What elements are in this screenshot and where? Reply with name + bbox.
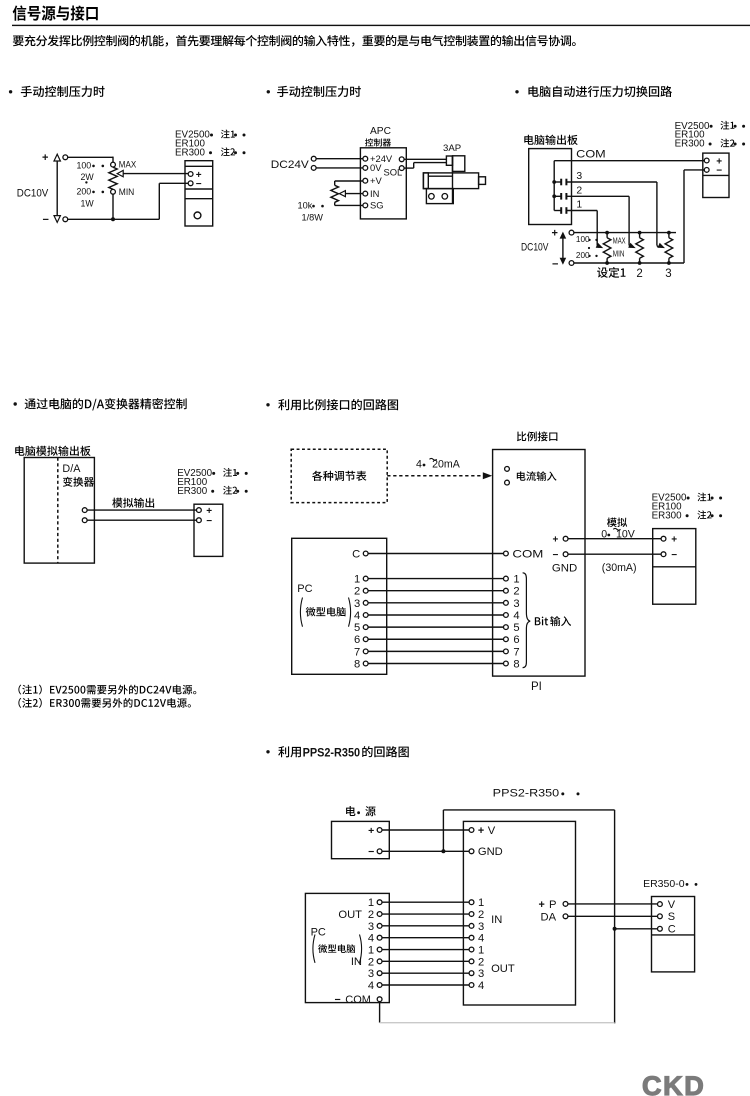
- svg-text:1: 1: [478, 897, 484, 909]
- valve 3AP left flange: [423, 173, 428, 189]
- svg-text:SG: SG: [370, 200, 384, 211]
- svg-text:+: +: [42, 152, 48, 164]
- wire row1: [382, 901, 469, 903]
- wire junction up to top rail: [442, 810, 444, 851]
- svg-text:ER300: ER300: [652, 510, 683, 521]
- svg-text:4: 4: [513, 610, 519, 622]
- wire 1 PC to PI: [368, 578, 503, 580]
- mounting hole left: [429, 194, 435, 200]
- svg-text:5: 5: [513, 622, 519, 634]
- top rail to right side: [443, 809, 614, 811]
- PI terminal 3: [504, 600, 509, 605]
- wire row5: [382, 949, 469, 951]
- svg-text:D/A: D/A: [62, 463, 81, 475]
- solenoid 3AP coil body: [453, 156, 465, 172]
- svg-text:200: 200: [576, 251, 590, 260]
- COM wire down and right (gray rail): [379, 1002, 381, 1023]
- wire row3: [382, 925, 469, 927]
- bottom wire from - terminal: [68, 218, 160, 220]
- svg-text:C: C: [352, 548, 360, 560]
- PI terminal 5: [504, 625, 509, 630]
- svg-text:4: 4: [416, 459, 422, 471]
- svg-text:COM: COM: [345, 994, 371, 1006]
- label 微型电脑: [306, 607, 346, 617]
- svg-text:V: V: [488, 825, 496, 837]
- PC box (circuit6): [305, 893, 389, 1002]
- wire C PC to PI: [368, 553, 503, 555]
- svg-text:1W: 1W: [81, 198, 95, 208]
- label 电脑模拟输出板: [15, 446, 90, 456]
- wire 3 PC to PI: [368, 602, 503, 604]
- junction dot on GND wire: [441, 849, 445, 853]
- pin +V: [363, 178, 368, 183]
- svg-text:ER300: ER300: [675, 139, 706, 150]
- svg-text:7: 7: [354, 646, 360, 658]
- voltage source arrow line: [56, 160, 58, 217]
- svg-text:+V: +V: [370, 175, 382, 186]
- valve terminal - (c4): [197, 518, 202, 523]
- label 设定1: [597, 267, 625, 278]
- valve terminal + (c3): [704, 158, 709, 163]
- svg-text:MAX: MAX: [613, 236, 626, 246]
- svg-text:3: 3: [478, 921, 484, 933]
- svg-text:V: V: [668, 899, 676, 911]
- arrow onto pot1: [596, 243, 605, 251]
- wiper arrow of R1: [123, 173, 189, 175]
- dashed arrow 4-20mA: [387, 475, 485, 477]
- svg-text:OUT: OUT: [338, 909, 362, 921]
- solenoid 3AP connector: [446, 156, 452, 165]
- terminal S: [658, 914, 663, 919]
- svg-text:+: +: [552, 535, 558, 546]
- output contact 2: [554, 195, 561, 197]
- svg-text:MAX: MAX: [119, 160, 137, 171]
- COM bus vertical: [553, 161, 555, 211]
- label 变换器: [63, 477, 94, 487]
- valve terminal +: [188, 172, 193, 177]
- svg-text:3: 3: [576, 171, 582, 182]
- COM terminal: [377, 997, 382, 1002]
- svg-text:IN: IN: [370, 188, 379, 199]
- valve 3AP mounting plate: [426, 189, 453, 204]
- wire P to V: [568, 903, 658, 905]
- wire DC24V- to 0V pin: [316, 167, 363, 169]
- svg-text:4: 4: [368, 933, 374, 945]
- svg-text:8: 8: [513, 658, 519, 670]
- wire output2 to pot2: [566, 195, 629, 197]
- current input terminal 1: [505, 467, 510, 472]
- output contact 3: [554, 181, 561, 183]
- junction dot row2: [552, 194, 556, 198]
- svg-text:OUT: OUT: [491, 963, 515, 975]
- wiper arrow of 10k pot: [345, 193, 363, 195]
- PI terminal C: [504, 551, 509, 556]
- DC24V terminal bottom: [311, 166, 316, 171]
- valve unit body (circuit5): [653, 529, 696, 605]
- svg-text:(30mA): (30mA): [602, 562, 637, 574]
- PPS2 terminal 2 row2: [469, 912, 474, 917]
- bullet heading 利用PPS2-R350的回路图: [266, 750, 269, 753]
- wire power- to GND: [382, 850, 469, 852]
- svg-text:DA: DA: [541, 911, 557, 923]
- PPS2-R350 box U2: [463, 821, 575, 1005]
- wire DC24V+ to +24V pin: [316, 158, 363, 160]
- label 模拟: [607, 518, 627, 528]
- svg-text:2: 2: [354, 586, 360, 598]
- PI interface box: [493, 450, 585, 677]
- junction dot row3: [552, 180, 556, 184]
- svg-text:DC10V: DC10V: [521, 241, 549, 253]
- note 1: [18, 685, 196, 695]
- wire row8: [382, 984, 469, 986]
- svg-text:2W: 2W: [81, 172, 95, 182]
- svg-text:P: P: [549, 899, 556, 911]
- label 电脑输出板: [524, 135, 577, 145]
- svg-text:2: 2: [513, 586, 519, 598]
- valve 3AP main body: [423, 173, 478, 189]
- preset pot 1: [603, 238, 611, 258]
- wire top from + terminal to potentiometer: [68, 156, 113, 158]
- wire row4: [382, 937, 469, 939]
- svg-text:2: 2: [368, 909, 374, 921]
- svg-text:DC10V: DC10V: [17, 187, 49, 199]
- svg-text:4: 4: [478, 933, 484, 945]
- svg-text:1: 1: [513, 574, 519, 586]
- PI terminal 2: [504, 588, 509, 593]
- svg-text:4: 4: [478, 980, 484, 992]
- potentiometer 10k body: [334, 181, 336, 185]
- brace Bit input: [523, 573, 531, 668]
- svg-text:1: 1: [576, 200, 582, 211]
- wire SOL top to solenoid: [404, 158, 446, 160]
- bullet heading 手动控制压力时 (middle): [267, 90, 270, 93]
- voltage source up arrowhead: [54, 154, 60, 161]
- svg-text:4: 4: [354, 610, 360, 622]
- pin 0V: [363, 166, 368, 171]
- potentiometer R1 MIN terminal: [111, 189, 116, 194]
- parenthesis right: [349, 598, 351, 627]
- svg-text:3: 3: [368, 968, 374, 980]
- wire + to valve (c5): [568, 538, 661, 540]
- svg-text:COM: COM: [512, 548, 543, 560]
- svg-text:PPS2-R350: PPS2-R350: [303, 745, 361, 759]
- svg-text:MIN: MIN: [613, 249, 625, 259]
- PPS2 terminal 4 row4: [469, 935, 474, 940]
- SOL pin top: [399, 157, 404, 162]
- svg-text:100: 100: [77, 161, 92, 171]
- svg-text:−: −: [716, 166, 722, 177]
- svg-text:3: 3: [665, 268, 671, 280]
- valve terminal - (c5): [661, 552, 666, 557]
- DC24V terminal top: [311, 156, 316, 161]
- preset pot 2: [636, 238, 644, 258]
- svg-text:IN: IN: [351, 956, 362, 968]
- wire SOL bottom to solenoid: [404, 167, 414, 169]
- svg-text:ER300: ER300: [175, 147, 206, 158]
- note 2: [18, 698, 191, 708]
- svg-text:ER350-0: ER350-0: [643, 878, 685, 890]
- svg-text:3: 3: [513, 598, 519, 610]
- PI terminal 4: [504, 613, 509, 618]
- potentiometer R1 MAX terminal: [111, 162, 116, 167]
- label Bit输入: [535, 617, 548, 626]
- dashed divider: [57, 458, 59, 564]
- mounting hole right: [442, 194, 448, 200]
- svg-text:10k: 10k: [298, 201, 313, 211]
- intro paragraph: [13, 35, 576, 47]
- pin +24V: [363, 156, 368, 161]
- power supply box: [332, 821, 390, 858]
- wire row2: [382, 913, 469, 915]
- terminal - of DC10V: [63, 217, 68, 222]
- svg-text:PC: PC: [297, 583, 312, 595]
- wire analog + to valve: [87, 509, 197, 511]
- label 比例接口: [517, 431, 557, 441]
- PI terminal 7: [504, 649, 509, 654]
- COM wire to valve +: [554, 160, 704, 162]
- wire 7 PC to PI: [368, 650, 503, 652]
- valve terminal -: [188, 181, 193, 186]
- PI terminal 6: [504, 637, 509, 642]
- top rail: [574, 232, 676, 234]
- junction dot bottom of R1: [111, 217, 115, 221]
- svg-text:COM: COM: [576, 149, 606, 161]
- terminal V: [658, 902, 663, 907]
- source terminal -: [569, 261, 574, 266]
- svg-text:ER300: ER300: [177, 486, 208, 497]
- PPS2 terminal 1 row5: [469, 947, 474, 952]
- PI terminal 8: [504, 661, 509, 666]
- bullet heading 手动控制压力时 (left): [9, 90, 12, 93]
- svg-text:C: C: [668, 924, 676, 936]
- terminal + of DC10V: [63, 155, 68, 160]
- junction dot to C wire: [613, 927, 617, 931]
- arrow onto pot2: [628, 243, 637, 251]
- wire rail to C terminal: [615, 928, 658, 930]
- svg-text:IN: IN: [491, 914, 502, 926]
- label 控制器: [365, 138, 391, 146]
- wire output3 to pot3: [566, 181, 657, 183]
- PPS2 terminal 3 row7: [469, 971, 474, 976]
- svg-text:8: 8: [354, 658, 360, 670]
- svg-text:1: 1: [478, 944, 484, 956]
- wire power+ to +V: [382, 829, 469, 831]
- svg-text:2: 2: [478, 909, 484, 921]
- svg-text:3AP: 3AP: [443, 143, 461, 154]
- wire DA to S: [568, 915, 658, 917]
- svg-text:4: 4: [368, 980, 374, 992]
- svg-text:−: −: [552, 550, 558, 561]
- analog output board box: [24, 458, 94, 564]
- wire analog - to valve: [87, 519, 197, 521]
- APC controller box U1: [360, 148, 406, 219]
- title 信号源与接口: [13, 5, 98, 20]
- svg-text:200: 200: [77, 187, 92, 197]
- valve unit body: [185, 161, 213, 226]
- terminal analog -: [82, 518, 87, 523]
- wire 6 PC to PI: [368, 638, 503, 640]
- svg-text:20mA: 20mA: [432, 459, 461, 471]
- label 各种调节表: [312, 471, 366, 481]
- source terminal +: [569, 230, 574, 235]
- wire valve minus to bottom rail: [159, 182, 188, 184]
- svg-text:3: 3: [354, 598, 360, 610]
- svg-text:2: 2: [478, 956, 484, 968]
- svg-text:2: 2: [368, 956, 374, 968]
- preset pot 3: [665, 238, 673, 258]
- title underline: [12, 25, 750, 26]
- svg-text:3: 3: [368, 921, 374, 933]
- svg-text:CKD: CKD: [642, 1071, 705, 1096]
- PC box (circuit5): [292, 538, 387, 674]
- svg-text:MIN: MIN: [119, 187, 135, 198]
- valve terminal - (c3): [704, 168, 709, 173]
- svg-text:−: −: [552, 259, 558, 271]
- wire 2 PC to PI: [368, 590, 503, 592]
- valve terminal + (c4): [197, 508, 202, 513]
- wire 4 PC to PI: [368, 614, 503, 616]
- svg-text:PC: PC: [311, 927, 326, 939]
- PPS2 terminal 1 row1: [469, 900, 474, 905]
- label 电流输入: [517, 471, 557, 481]
- svg-text:0V: 0V: [370, 162, 382, 173]
- svg-text:+: +: [368, 825, 374, 837]
- svg-text:5: 5: [354, 622, 360, 634]
- voltage source down arrowhead: [54, 216, 60, 223]
- parenthesis left: [300, 598, 302, 627]
- wire row7: [382, 972, 469, 974]
- svg-text:3: 3: [478, 968, 484, 980]
- valve unit body (circuit4): [194, 504, 223, 556]
- svg-text:2: 2: [636, 268, 642, 280]
- svg-text:GND: GND: [478, 846, 503, 858]
- arrow onto pot3: [658, 243, 667, 251]
- potentiometer R1 zigzag body: [109, 167, 117, 189]
- valve indicator circle: [194, 212, 201, 219]
- PI terminal 1: [504, 576, 509, 581]
- svg-text:7: 7: [513, 646, 519, 658]
- svg-text:2: 2: [576, 186, 582, 197]
- PPS2 terminal 3 row3: [469, 923, 474, 928]
- ER350 valve box: [652, 897, 695, 972]
- svg-text:100: 100: [576, 235, 590, 244]
- parenthesis left (c6): [313, 935, 315, 963]
- svg-text:1: 1: [368, 897, 374, 909]
- wire 8 PC to PI: [368, 663, 503, 665]
- bullet heading 电脑自动进行压力切换回路 (right): [515, 90, 518, 93]
- PPS2 terminal 4 row8: [469, 983, 474, 988]
- svg-text:−: −: [368, 846, 374, 858]
- svg-text:S: S: [668, 911, 675, 923]
- wire 5 PC to PI: [368, 626, 503, 628]
- right vertical rail: [614, 810, 616, 1024]
- svg-text:APC: APC: [370, 126, 391, 137]
- valve 3AP right port: [479, 177, 486, 185]
- solenoid vertical edge line: [452, 156, 454, 204]
- pin SG: [363, 203, 368, 208]
- bottom rail: [574, 262, 684, 264]
- valve unit body (circuit3): [703, 153, 729, 197]
- output contact 1: [554, 210, 561, 212]
- svg-text:+: +: [671, 535, 677, 546]
- svg-text:GND: GND: [552, 563, 577, 575]
- pin +V: [469, 828, 474, 833]
- label 模拟输出: [112, 498, 154, 508]
- SOL pin bottom: [399, 166, 404, 171]
- svg-text:−: −: [43, 214, 49, 226]
- bullet heading 通过电脑的D/A变换器精密控制: [14, 402, 17, 405]
- svg-text:−: −: [206, 516, 212, 527]
- svg-text:6: 6: [513, 634, 519, 646]
- computer output board box: [529, 149, 572, 225]
- svg-text:+: +: [478, 825, 484, 837]
- svg-text:DC24V: DC24V: [271, 159, 310, 171]
- svg-text:1/8W: 1/8W: [302, 212, 324, 222]
- PPS2 terminal 2 row6: [469, 959, 474, 964]
- wire row6: [382, 960, 469, 962]
- current input terminal 2: [505, 480, 510, 485]
- svg-text:1: 1: [354, 574, 360, 586]
- parenthesis right (c6): [360, 935, 362, 963]
- wire from MIN to bottom rail: [112, 194, 114, 219]
- source arrow line: [562, 235, 564, 262]
- valve terminal + (c5): [661, 536, 666, 541]
- svg-text:−: −: [671, 550, 677, 561]
- terminal analog +: [82, 508, 87, 513]
- label 微型电脑 (c6): [318, 944, 355, 953]
- svg-text:PPS2-R350: PPS2-R350: [493, 788, 560, 800]
- svg-text:PI: PI: [531, 681, 542, 693]
- svg-text:+: +: [552, 228, 558, 240]
- svg-text:−: −: [196, 179, 202, 190]
- svg-text:−: −: [335, 994, 341, 1006]
- pin GND: [469, 849, 474, 854]
- label 电源: [346, 806, 355, 816]
- dashed box 各种调节表: [291, 449, 387, 502]
- svg-text:1: 1: [368, 944, 374, 956]
- terminal C: [658, 926, 663, 931]
- svg-text:6: 6: [354, 634, 360, 646]
- wire from bottom rail up to valve -: [683, 170, 685, 263]
- wire - to valve (c5): [568, 553, 661, 555]
- svg-text:+: +: [539, 899, 545, 911]
- pin IN: [363, 191, 368, 196]
- wire output1 to pot1: [566, 210, 597, 212]
- bullet heading 利用比例接口的回路图: [266, 403, 269, 406]
